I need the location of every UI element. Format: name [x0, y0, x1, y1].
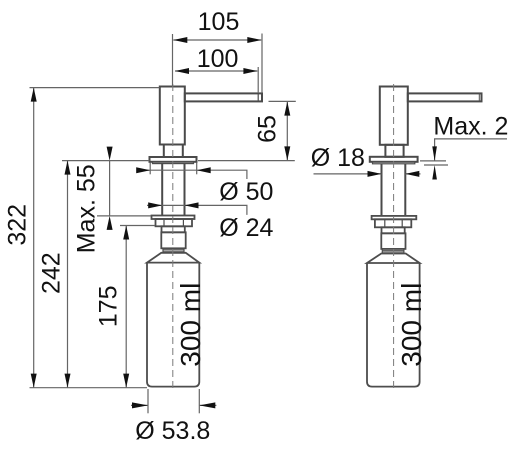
- extension line head center: [172, 34, 174, 86]
- spout tube right: [408, 93, 482, 101]
- extension line bottle bottom: [30, 387, 148, 389]
- dim D18 line: [314, 173, 382, 175]
- dim 322 line: [33, 88, 35, 388]
- dim 65 line: [286, 102, 288, 161]
- pump body: [161, 232, 185, 248]
- svg-text:Ø 50: Ø 50: [219, 178, 273, 206]
- svg-text:300 ml: 300 ml: [396, 283, 427, 367]
- extension line spout bottom: [269, 100, 296, 102]
- nut washer right: [372, 216, 417, 219]
- mounting flange: [150, 157, 197, 162]
- extension line spout tip outer: [261, 34, 263, 94]
- hex nut: [156, 219, 193, 226]
- svg-text:322: 322: [3, 204, 31, 246]
- svg-text:Ø 18: Ø 18: [311, 144, 365, 172]
- dim 175 line: [125, 226, 127, 388]
- svg-text:242: 242: [38, 252, 66, 294]
- nut washer: [152, 216, 195, 220]
- center line left: [172, 84, 174, 390]
- bottle shoulder right: [367, 254, 420, 264]
- center line right: [393, 84, 395, 390]
- dim Max55 line: [109, 161, 111, 216]
- head neck: [164, 145, 183, 158]
- bottle shoulder: [147, 253, 199, 263]
- extension lines bottle width: [147, 389, 149, 413]
- spout cap right: [478, 93, 480, 101]
- pump head body right: [380, 87, 408, 145]
- svg-text:Max. 55: Max. 55: [73, 164, 101, 253]
- extension line spout tip inner: [257, 67, 259, 93]
- head neck right: [385, 145, 403, 157]
- pump head body: [160, 87, 185, 145]
- svg-text:Ø 24: Ø 24: [219, 214, 273, 242]
- svg-text:Ø 53.8: Ø 53.8: [135, 417, 210, 445]
- flange right: [370, 157, 418, 162]
- dim 100 line: [175, 70, 257, 72]
- spout end cap line: [257, 93, 259, 101]
- dim Max2 leader: [435, 139, 507, 161]
- pump connector: [162, 226, 185, 232]
- flange bevel right: [373, 162, 415, 164]
- svg-text:175: 175: [95, 285, 123, 327]
- pump connector right: [382, 227, 405, 233]
- extension line nut bottom: [120, 225, 155, 227]
- flange bevel: [153, 162, 194, 164]
- dim 105 line: [173, 39, 261, 41]
- bottle body: [147, 263, 199, 387]
- extension line counter top: [62, 160, 150, 162]
- extension line nut top: [97, 215, 151, 217]
- dim D50 leader: [137, 170, 247, 179]
- extension line flange bottom right: [198, 160, 295, 162]
- spout tube: [185, 93, 262, 101]
- bottle body right: [367, 263, 420, 387]
- svg-text:300 ml: 300 ml: [175, 283, 206, 367]
- hex nut right: [375, 219, 411, 227]
- ribbed collar right: [382, 249, 404, 254]
- dim D24 leader: [147, 205, 247, 215]
- dim D53.8 line: [131, 404, 148, 406]
- extension lines flange D50: [149, 163, 151, 175]
- dim 242 line: [67, 161, 69, 388]
- extension line head top: [30, 87, 160, 89]
- threaded shaft: [161, 164, 163, 216]
- svg-text:105: 105: [198, 8, 240, 36]
- ribbed collar: [163, 248, 184, 253]
- svg-text:100: 100: [197, 45, 239, 73]
- shaft right: [381, 164, 383, 216]
- svg-text:Max. 2: Max. 2: [433, 113, 508, 141]
- svg-text:65: 65: [253, 115, 281, 143]
- pump body right: [381, 233, 405, 249]
- extension lines Max2: [420, 160, 446, 162]
